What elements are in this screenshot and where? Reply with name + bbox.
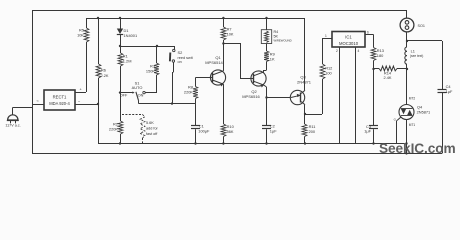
svg-text:5.6K: 5.6K [146,121,154,125]
wire left line to rectifier [32,104,44,106]
svg-text:100: 100 [325,71,332,76]
resistor R11 [302,124,307,137]
node R7 rail junction [222,17,224,19]
switch S2 reed [174,46,176,49]
rectifier RECT1 MDA 920-4 [44,90,75,110]
plug 117V ac [12,108,14,116]
wire Q1 collector [223,44,225,71]
inductor L1 [405,47,407,51]
svg-text:150K: 150K [146,69,155,74]
node S2 wire junction [171,102,173,104]
wire D1 to node A [120,34,122,46]
wire IC1 pin6 [365,34,374,36]
wire triac gate [397,117,401,121]
op-amp U1 optocoupler IC1 MOC3010 [332,32,365,48]
wire R12 to IC1 pin1 [322,38,324,64]
svg-text:200: 200 [309,129,316,134]
node rectifier minus junction [97,103,99,105]
svg-text:1μF: 1μF [270,129,277,134]
wire Q2 emitter [264,85,267,87]
node R4 rail junction [265,17,267,19]
wire C1 bottom [195,129,197,143]
svg-text:RECT1: RECT1 [53,95,67,100]
svg-text:2N5871: 2N5871 [417,110,431,115]
wire Q2 collector [263,70,265,72]
svg-text:L1: L1 [411,48,415,53]
resistor R9 [264,51,269,62]
wire C3 bottom [373,129,375,143]
transistor Q1 MPS6514 [210,70,225,85]
resistor 5.6K optional (dashed) [122,114,143,116]
wire R11 bottom [304,137,306,144]
resistor R5 [84,28,89,42]
node MT1 ground junction [405,142,407,144]
svg-text:MOC3010: MOC3010 [339,41,359,46]
wire R7 bottom [223,40,225,44]
wire left AC line [32,10,34,153]
wire bottom AC rail [32,153,442,155]
svg-text:add for: add for [146,127,159,131]
svg-text:4: 4 [358,49,360,53]
wire R4 top [266,18,268,30]
wire rectifier plus lead [75,92,86,94]
resistor R6 [96,64,101,78]
wire R3 to S1 ON contact [156,75,158,93]
svg-text:56K: 56K [227,129,234,134]
lamp socket SO1 [406,10,408,18]
node R3 rail junction [156,45,158,47]
svg-text:10K: 10K [227,32,234,37]
resistor R8 [195,78,197,87]
wire base1 to R12 [305,114,322,116]
wire R13 bottom [373,61,375,70]
triac Q4 2N5871 [399,105,414,120]
resistor R1 [120,46,122,53]
wire R9 top [266,44,268,52]
svg-text:1μF: 1μF [446,89,453,94]
resistor R10 56K [221,124,226,137]
wire triac MT1 [406,120,408,154]
svg-text:1.2M: 1.2M [123,59,132,64]
node lamp L1 C4 junction [406,40,408,42]
capacitor C3 1uF [373,69,375,126]
svg-text:reed swit: reed swit [178,56,194,60]
resistor R7 [223,18,225,27]
svg-text:6: 6 [367,30,369,34]
svg-text:MT2: MT2 [409,97,416,101]
resistor R4 5K wirewound [261,30,271,44]
wire R10 bottom [223,137,225,144]
wire Q3 base2 to rail [304,18,306,90]
svg-text:220K: 220K [184,90,193,95]
resistor R13 180 [371,48,376,61]
wire DC positive rail [86,18,305,20]
wire R6 bottom to ground rail [98,78,100,104]
svg-text:OFF: OFF [120,94,128,98]
transistor Q2 MPS6516 [251,71,266,86]
wire DC ground rail [98,143,407,145]
wire L1 to triac MT2 [406,64,408,104]
node Q1 collector junction [222,42,224,44]
transistor Q3 2N4871 UJT [290,90,304,104]
wire S2 bottom [173,62,175,72]
svg-text:180: 180 [377,53,384,58]
svg-text:AUTO: AUTO [132,85,143,90]
wire C4 bottom [442,93,444,154]
svg-text:IC1: IC1 [345,35,352,40]
svg-text:MPS6516: MPS6516 [242,94,260,99]
wire Q3 emitter [267,97,291,99]
svg-text:1μF: 1μF [364,128,371,133]
svg-text:2.4K: 2.4K [383,75,391,80]
node Q3 base1 junction [304,113,306,115]
wire lamp to L1 node [406,32,408,47]
node D1 rail junction [119,17,121,19]
node R6 rail junction [97,17,99,19]
svg-text:(see text): (see text) [410,54,423,58]
svg-text:2.2K: 2.2K [101,73,109,78]
capacitor C2 1uF [262,125,271,127]
node R10 ground junction [222,142,224,144]
node C3 ground junction [372,142,374,144]
svg-text:R6: R6 [101,68,106,73]
svg-text:SO1: SO1 [418,24,425,28]
svg-text:MDA 920-4: MDA 920-4 [49,101,70,106]
svg-text:ON: ON [138,94,144,98]
capacitor C4 1uF [442,41,444,89]
resistor R2 [118,121,123,134]
wire plug to left line [13,107,32,109]
svg-text:MPS6514: MPS6514 [205,60,223,65]
svg-text:220K: 220K [109,127,118,132]
node R1 R2 S1 junction [119,91,121,93]
capacitor C1 100uF [195,104,197,126]
wire C2 top [266,98,268,126]
wire top AC rail [32,10,407,12]
wire IC1 pin4 to ground [355,47,357,144]
svg-text:1K: 1K [270,57,275,62]
svg-text:WIREWOUND: WIREWOUND [274,39,292,43]
wire R8 bottom [195,99,197,104]
wire divider rail [120,46,174,48]
resistor R12 [320,64,325,79]
switch S1 auto-off-on [121,92,133,94]
wire R6 top [98,18,100,64]
svg-text:MT1: MT1 [409,123,416,127]
resistor R3 [156,46,158,63]
wire S1 common to C1 node [139,103,196,105]
diode D1 1N4001 [117,29,123,35]
wire IC1 pin2 to ground [339,47,341,144]
wire rectifier minus lead [75,104,98,106]
node Q2 emitter junction [265,96,267,98]
svg-text:1: 1 [325,34,327,38]
node R2 ground junction [119,142,121,144]
svg-text:2: 2 [336,49,338,53]
node R13 R14 C3 junction [372,68,374,70]
svg-text:117V a.c.: 117V a.c. [5,124,20,128]
node R14 right junction [406,68,408,70]
svg-text:1N4001: 1N4001 [124,33,138,38]
wire Q1 base [196,77,213,79]
wire Q1 collector to Q2 base [224,44,254,79]
svg-text:100μF: 100μF [198,129,210,134]
svg-text:on: on [178,60,182,64]
node R11 ground junction [304,142,306,144]
svg-text:SeekIC.com: SeekIC.com [379,141,456,156]
node C2 ground junction [265,142,267,144]
wire C2 bottom [266,129,268,143]
wire R1 to R2 [120,66,122,121]
svg-text:S2: S2 [178,50,183,55]
wire R2 bottom [120,134,122,144]
node MT1 bottom junction [405,152,407,154]
resistor R14 [374,68,380,70]
wire node to C4 [407,40,442,42]
svg-text:fast off: fast off [146,132,158,136]
wire Q1 emitter [223,84,225,124]
svg-text:10K: 10K [77,33,84,38]
wire D1 top [120,18,122,29]
node C1 ground junction [194,142,196,144]
wire Q3 base1 [304,105,306,114]
node A junction [119,45,121,47]
